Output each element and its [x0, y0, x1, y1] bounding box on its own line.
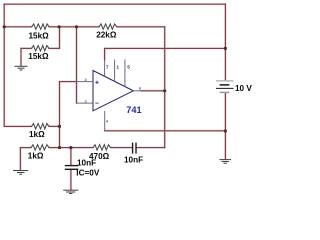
svg-text:741: 741 [126, 105, 141, 115]
svg-text:1kΩ: 1kΩ [28, 151, 44, 160]
svg-text:1: 1 [116, 65, 119, 71]
svg-text:15kΩ: 15kΩ [29, 32, 50, 41]
svg-text:IC=0V: IC=0V [76, 168, 100, 177]
svg-text:22kΩ: 22kΩ [96, 30, 117, 39]
svg-text:15kΩ: 15kΩ [28, 52, 49, 61]
svg-text:10nF: 10nF [77, 159, 96, 168]
svg-text:10 V: 10 V [235, 84, 252, 93]
svg-text:1kΩ: 1kΩ [29, 130, 45, 139]
svg-text:5: 5 [127, 64, 130, 70]
svg-text:10nF: 10nF [124, 155, 143, 164]
svg-text:7: 7 [106, 64, 109, 70]
